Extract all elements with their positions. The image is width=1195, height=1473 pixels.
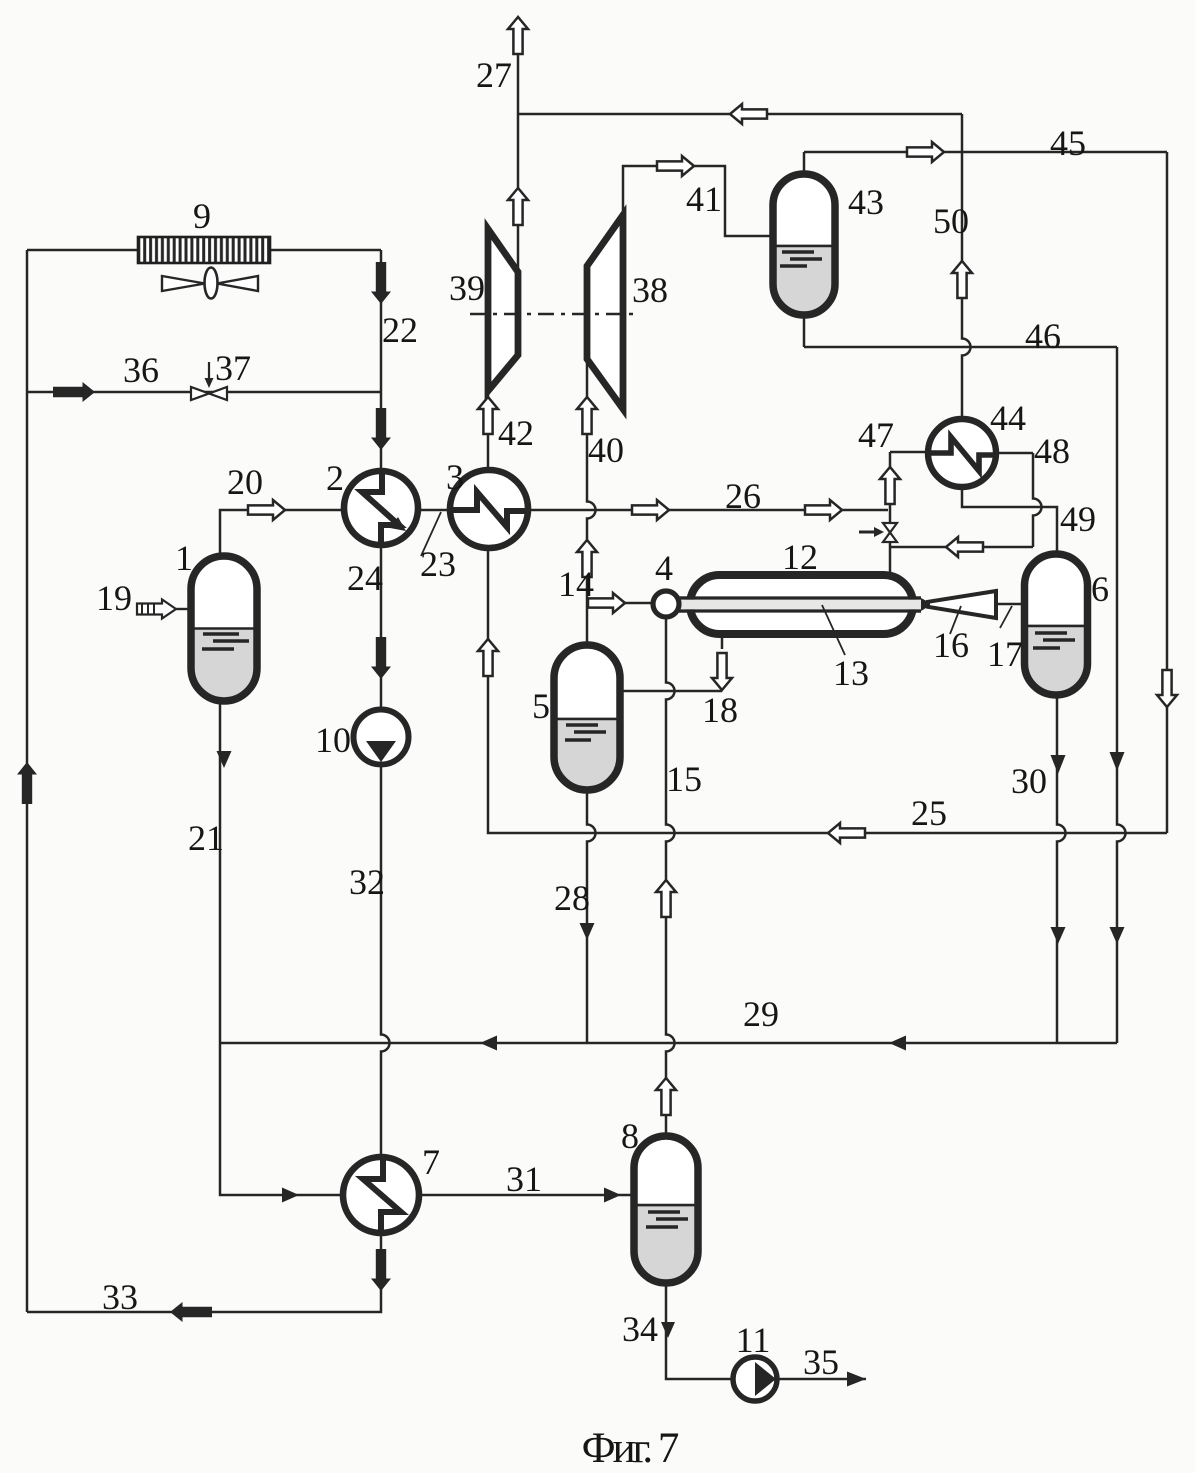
svg-text:12: 12	[782, 537, 818, 577]
svg-text:13: 13	[833, 653, 869, 693]
pipe: link line 50 to line 27	[518, 113, 962, 116]
pipe: left recycle riser (33 to cooler 9)	[26, 250, 29, 1312]
pipe 31: heat exchanger 7 to vessel 8	[419, 1194, 634, 1197]
svg-text:17: 17	[987, 634, 1023, 674]
svg-text:4: 4	[655, 548, 673, 588]
flow arrow 35	[847, 1372, 866, 1387]
heat exchanger 7	[343, 1157, 419, 1233]
air cooler 9	[138, 237, 270, 263]
flow arrow 40 into compressor 38	[577, 397, 597, 434]
pipe: vessel 43 top stub	[803, 152, 806, 174]
compressor 38	[587, 215, 623, 409]
flow arrow on pipe 45	[907, 142, 944, 162]
flow arrow on pipe 28	[580, 923, 595, 940]
svg-text:49: 49	[1060, 499, 1096, 539]
mixer node 4	[653, 591, 679, 617]
flow arrow 31 into vessel 8	[604, 1188, 621, 1203]
svg-text:47: 47	[858, 415, 894, 455]
flow arrow 42 into turbine 39	[478, 397, 498, 434]
pump 11	[733, 1357, 777, 1401]
flow arrow at start of pipe 36	[53, 382, 95, 402]
svg-text:28: 28	[554, 878, 590, 918]
flow arrow below heat exchanger 7	[371, 1249, 391, 1291]
flow arrow 14	[588, 593, 625, 613]
separator vessel 1	[191, 556, 257, 774]
svg-text:14: 14	[558, 564, 594, 604]
svg-text:29: 29	[743, 994, 779, 1034]
pipe 35: pump 11 discharge	[777, 1378, 866, 1381]
pipe 30: vessel 6 bottom downcomer (hops line 25)	[1057, 695, 1066, 1043]
flow arrow on pipe 29 (left, west)	[480, 1036, 497, 1051]
fan of air cooler 9	[162, 268, 258, 299]
flow arrow into heat exchanger 3 bottom	[478, 639, 498, 676]
flow arrow 30 on vessel 6 downcomer	[1051, 755, 1066, 774]
pipe: valve node drop into reactor 12	[889, 452, 892, 575]
svg-text:15: 15	[666, 759, 702, 799]
pipe: line 45 right downcomer	[1166, 152, 1169, 833]
svg-text:34: 34	[622, 1309, 658, 1349]
separator vessel 43	[773, 174, 835, 387]
flow arrow on pipe 50	[952, 261, 972, 298]
pipe 25: return header from line 45 into heat exchanger 3 bottom	[488, 548, 1167, 833]
flow arrow on link pipe to 27	[730, 104, 767, 124]
svg-text:42: 42	[498, 413, 534, 453]
pipe 45: vessel 43 overhead to right downcomer	[804, 151, 1167, 154]
svg-text:22: 22	[382, 310, 418, 350]
pipe: vessel 5 side line to reactor drain 18	[620, 690, 722, 693]
flow arrow 47 (up)	[880, 467, 900, 504]
nozzle 16	[921, 591, 996, 618]
flow arrow 20	[248, 500, 285, 520]
pipe 42: heat exchanger 3 top to turbine 39	[487, 391, 490, 470]
pipe 20: vessel 1 top to heat exchanger 2	[220, 510, 343, 556]
svg-text:19: 19	[96, 578, 132, 618]
pipe 23: between heat exchangers 2 and 3	[419, 509, 450, 512]
pipe 46: vessel 43 bottom to right downcomer	[804, 346, 1117, 349]
svg-text:36: 36	[123, 350, 159, 390]
reactor 12	[690, 575, 913, 634]
svg-text:6: 6	[1091, 569, 1109, 609]
pump 10	[354, 710, 409, 765]
pipe 36: bypass line to valve 37	[27, 391, 381, 394]
svg-text:8: 8	[621, 1116, 639, 1156]
valve 37	[191, 362, 227, 400]
svg-text:44: 44	[990, 398, 1026, 438]
svg-text:27: 27	[476, 55, 512, 95]
heat exchanger 2	[344, 471, 418, 545]
svg-text:48: 48	[1034, 431, 1070, 471]
svg-text:5: 5	[532, 686, 550, 726]
pipe 33: heat exchanger 7 to left riser	[27, 1233, 381, 1312]
svg-text:35: 35	[803, 1342, 839, 1382]
turbine 39	[488, 229, 518, 391]
flow arrow on pipe 41	[657, 156, 694, 176]
flow arrow on pipe 22 (lower)	[371, 408, 391, 450]
flow arrow 33 (left)	[170, 1302, 212, 1322]
svg-text:30: 30	[1011, 761, 1047, 801]
svg-text:46: 46	[1025, 316, 1061, 356]
pipe 47: node to heat exchanger 44 inlet	[890, 451, 928, 454]
valve between nodes 47 and reactor feed	[859, 523, 897, 542]
flow arrow on right downcomer of pipe 45	[1157, 670, 1177, 707]
svg-text:2: 2	[326, 458, 344, 498]
svg-text:41: 41	[686, 179, 722, 219]
pipe 48: down leg (hops line 49)	[1033, 453, 1042, 547]
flow arrow on pipe 27	[508, 188, 528, 225]
svg-text:3: 3	[446, 457, 464, 497]
pipe 14: feed branch to mixer 4	[587, 602, 653, 605]
tube 13: upper wall	[679, 596, 921, 599]
flow arrow 25 (west)	[828, 823, 865, 843]
svg-text:40: 40	[588, 430, 624, 470]
svg-text:10: 10	[315, 720, 351, 760]
svg-text:1: 1	[175, 538, 193, 578]
svg-text:23: 23	[420, 544, 456, 584]
svg-text:21: 21	[188, 818, 224, 858]
pipe 21: vessel 1 bottom to heat exchanger 7	[220, 701, 349, 1195]
pipe 27: turbine 39 outlet riser	[517, 52, 520, 272]
flow arrow on pipe 21	[217, 751, 232, 768]
flow arrow on pipe 40 below line 26	[577, 540, 597, 577]
pipe 48: return to valve node	[890, 546, 1033, 549]
flow arrow on pipe 48 return	[946, 537, 983, 557]
flow arrow on pipe 15 (lower)	[656, 1078, 676, 1115]
svg-text:20: 20	[227, 462, 263, 502]
pipe 49: heat exchanger 44 bottom to vessel 6	[962, 487, 1057, 554]
pipe 34: vessel 8 bottom to pump 11	[666, 1283, 733, 1379]
flow arrow on pipe 15 (upper)	[656, 880, 676, 917]
pipe 24: heat exchanger 2 to pump 10	[380, 545, 383, 710]
leader line of label 16	[950, 606, 961, 634]
svg-text:16: 16	[933, 625, 969, 665]
svg-text:33: 33	[102, 1277, 138, 1317]
flow arrow 26 (right)	[805, 500, 842, 520]
feed arrow 19 into vessel 1	[137, 600, 191, 619]
separator vessel 6	[1025, 554, 1088, 767]
flow arrow on pipe 29 (right, west)	[889, 1036, 906, 1051]
tube 13: lower wall	[679, 609, 921, 612]
flow arrow on left riser (up)	[17, 762, 37, 804]
flow arrow on vessel 6 downcomer (lower)	[1051, 927, 1066, 944]
pipe: vessel 43 bottom stub	[803, 315, 806, 347]
pipe: line 46 downcomer (hops line 25)	[1117, 347, 1126, 1043]
flow arrow 34	[661, 1322, 675, 1338]
svg-text:45: 45	[1050, 123, 1086, 163]
flow arrow on line 46 downcomer (lower)	[1110, 927, 1125, 944]
pipe 29: bottom return header	[220, 1042, 1117, 1045]
pipe: cooler 9 inlet line to node 22	[27, 249, 381, 252]
pipe 41: compressor 38 outlet to vessel 43	[623, 166, 773, 236]
svg-text:11: 11	[736, 1320, 771, 1360]
flow arrow 26 (left)	[632, 500, 669, 520]
tube 13 inside reactor 12	[679, 598, 921, 611]
heat exchanger 3	[450, 470, 528, 548]
svg-text:25: 25	[911, 793, 947, 833]
svg-text:38: 38	[632, 270, 668, 310]
svg-text:43: 43	[848, 182, 884, 222]
svg-text:7: 7	[422, 1142, 440, 1182]
flow arrow on pipe 22 (upper)	[371, 262, 391, 304]
svg-text:32: 32	[349, 862, 385, 902]
pipe 40: vessel 5 top to compressor 38 (hops line 26)	[587, 359, 596, 645]
svg-text:26: 26	[725, 476, 761, 516]
shaft line between turbine 39 and compressor 38	[470, 313, 640, 316]
separator vessel 5	[554, 645, 620, 864]
pipe 50: heat exchanger 44 top riser (hops line 46)	[962, 114, 971, 419]
separator vessel 8	[634, 1136, 698, 1352]
drain arrow 18	[712, 653, 732, 690]
flow arrow on pipe 24	[371, 637, 391, 679]
svg-text:31: 31	[506, 1159, 542, 1199]
svg-text:37: 37	[215, 348, 251, 388]
leader line of label 13	[822, 605, 845, 655]
svg-text:9: 9	[193, 196, 211, 236]
heat exchanger 44	[928, 419, 996, 487]
pipe 15: vessel 8 top riser to mixer 4 (hops 3 lines)	[666, 617, 675, 1136]
leader line of label 17	[1000, 606, 1012, 628]
pipe 17: nozzle 16 outlet to vessel 6	[998, 603, 1025, 606]
pipe 26: heat exchanger 3 to valve node 47	[528, 509, 888, 512]
flow arrow into heat exchanger 7	[282, 1188, 299, 1203]
flow arrow on line 46 downcomer	[1110, 752, 1125, 771]
outlet arrow 27 (top)	[508, 17, 528, 54]
svg-text:Фиг. 7: Фиг. 7	[582, 1425, 679, 1472]
pipe 48: heat exchanger 44 outlet	[996, 452, 1033, 455]
svg-text:18: 18	[702, 690, 738, 730]
svg-text:24: 24	[347, 558, 383, 598]
pipe 22: down to heat exchanger 2	[380, 250, 383, 471]
leader line of label 23	[421, 512, 441, 556]
pipe 28: vessel 5 bottom downcomer (hops line 25)	[587, 790, 596, 1043]
pipe 32: pump 10 down to heat exchanger 7 (hops line 29)	[381, 764, 390, 1157]
svg-text:39: 39	[449, 268, 485, 308]
svg-text:50: 50	[933, 201, 969, 241]
pipe 18: reactor 12 bottom drain stub	[721, 634, 724, 649]
